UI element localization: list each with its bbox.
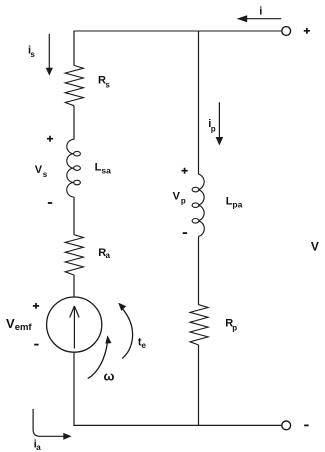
arrow i (top) — [246, 18, 281, 20]
source arrow — [70, 306, 79, 349]
terminal top right — [282, 27, 291, 36]
wire — [73, 106, 75, 140]
bottom wire — [74, 424, 282, 426]
resistor R_p — [190, 305, 208, 345]
resistor R_a — [65, 235, 83, 275]
arrow i_a — [33, 409, 63, 436]
arrow t_e (curved) — [121, 307, 133, 359]
wire — [73, 352, 75, 426]
wire — [73, 275, 75, 297]
svg-text:V: V — [311, 240, 319, 254]
svg-text:p: p — [232, 323, 237, 332]
minus V_p — [183, 232, 187, 234]
svg-text:emf: emf — [15, 322, 33, 333]
svg-text:i: i — [259, 6, 262, 18]
svg-text:sa: sa — [101, 166, 111, 176]
svg-text:V: V — [35, 164, 43, 176]
plus top right — [304, 28, 310, 34]
minus bottom right — [304, 424, 308, 426]
wire middle branch upper — [198, 31, 200, 174]
plus V_emf — [33, 303, 39, 309]
svg-text:e: e — [142, 341, 147, 350]
plus V_p — [182, 168, 188, 174]
arrow i_s — [48, 34, 50, 68]
minus V_s — [48, 202, 52, 204]
arrow i_p — [218, 102, 220, 137]
wire — [198, 345, 200, 426]
wire — [73, 197, 75, 235]
svg-text:pa: pa — [232, 200, 242, 210]
inductor L_sa — [67, 139, 81, 197]
wire left branch upper — [73, 31, 75, 66]
svg-text:p: p — [181, 196, 186, 205]
resistor R_s — [65, 65, 83, 105]
wire — [198, 237, 200, 305]
plus V_s — [47, 136, 53, 142]
svg-text:ω: ω — [104, 369, 115, 384]
minus V_emf — [34, 344, 38, 346]
svg-text:s: s — [105, 80, 110, 89]
svg-text:a: a — [36, 443, 41, 452]
svg-text:V: V — [173, 191, 181, 203]
svg-text:p: p — [211, 124, 216, 133]
source V_emf circle — [47, 297, 102, 352]
svg-text:s: s — [43, 170, 48, 179]
inductor L_pa — [192, 174, 204, 237]
terminal bottom right — [282, 421, 291, 430]
svg-text:s: s — [30, 50, 35, 59]
svg-text:V: V — [6, 316, 15, 331]
arrow omega (curved) — [88, 341, 108, 379]
top wire — [74, 30, 282, 32]
svg-text:a: a — [106, 251, 111, 260]
